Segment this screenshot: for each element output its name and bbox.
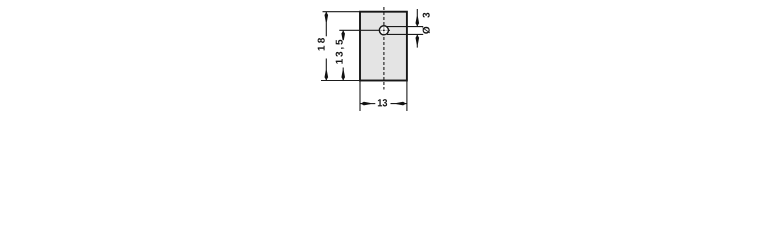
hole top tangent leader: [387, 26, 423, 28]
dim 18 line lower segment: [325, 59, 327, 81]
dim 13,5 top arrow (up): [341, 31, 345, 41]
dim 13 left arrow: [361, 102, 371, 106]
hole interior centerline marks: [380, 29, 382, 31]
dim 13 right extension line: [406, 81, 408, 112]
label 18: [318, 38, 325, 50]
dia3 dimension lower line: [416, 34, 418, 47]
hole bottom tangent leader: [387, 33, 423, 35]
dia3 lower arrow (up): [416, 35, 420, 45]
dia3 upper arrow (down): [416, 17, 420, 27]
centerline vertical dashed: [383, 7, 385, 90]
hole center dot: [383, 29, 385, 31]
label dia 3: [422, 13, 430, 34]
dim 13,5 line lower segment: [342, 68, 344, 81]
dim 13 right arrow: [396, 102, 406, 106]
label 13,5: [336, 40, 345, 64]
dim 18 line upper segment: [325, 12, 327, 37]
dim 13 left extension line: [359, 81, 361, 112]
dim 18 top arrow (up): [325, 12, 329, 22]
dim 13 line right segment: [391, 103, 407, 105]
dia3 dimension upper line: [416, 9, 418, 27]
plate body: [360, 12, 407, 81]
dim 13 line left segment: [360, 103, 375, 105]
dim 13,5 line upper segment: [342, 30, 344, 38]
mounting hole: [379, 26, 388, 35]
dim 18 bottom arrow (down): [325, 71, 329, 81]
top extension line: [323, 11, 361, 13]
bottom-left extension line: [321, 80, 360, 82]
label 13: [378, 99, 387, 106]
dim 13,5 bottom arrow (down): [341, 71, 345, 81]
hole centerline horizontal: [339, 29, 390, 31]
